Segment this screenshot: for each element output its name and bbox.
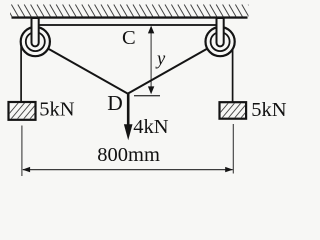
ceiling line: [12, 16, 248, 18]
800mm arrow left: [22, 167, 30, 172]
svg-text:5kN: 5kN: [251, 99, 286, 121]
svg-text:C: C: [122, 27, 136, 49]
y dim arrow up: [148, 26, 154, 34]
svg-text:800mm: 800mm: [97, 144, 160, 166]
pulley B bracket U-strap: [217, 18, 224, 46]
4kN force arrow: [124, 94, 133, 141]
y dimension line: [150, 27, 152, 93]
cable left diagonal to D: [35, 41, 128, 93]
weight box right: [220, 102, 247, 119]
pulley B outer wheel: [206, 27, 235, 56]
extension line right: [232, 124, 234, 174]
extension line left: [21, 126, 23, 177]
weight box left hatch: [3, 102, 51, 121]
pulley top tangent line: [36, 24, 219, 26]
y dim arrow down: [148, 86, 154, 94]
cable left vertical: [20, 43, 22, 101]
svg-text:y: y: [155, 50, 166, 70]
ceiling hatch: [5, 5, 255, 17]
pulley A outer wheel: [21, 27, 50, 56]
cable right vertical: [232, 43, 234, 102]
800mm arrow right: [225, 167, 233, 172]
cable right diagonal to D: [128, 41, 220, 93]
tick at D level: [134, 95, 160, 97]
pulley A inner rim: [26, 32, 45, 51]
pulley B inner rim: [211, 32, 230, 51]
weight box left: [9, 102, 36, 120]
pulley A bracket U-strap: [32, 18, 39, 46]
svg-text:5kN: 5kN: [39, 99, 74, 121]
weight box right hatch: [214, 101, 262, 120]
svg-text:D: D: [107, 91, 123, 115]
800mm dimension line: [23, 169, 233, 171]
svg-text:4kN: 4kN: [133, 116, 169, 138]
